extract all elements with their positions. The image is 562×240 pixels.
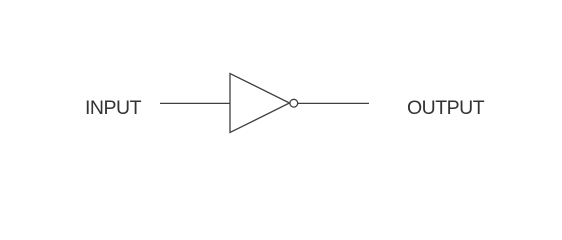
svg-text:OUTPUT: OUTPUT [407, 97, 485, 119]
node INPUT [85, 97, 142, 119]
inversion bubble [290, 99, 298, 107]
wire [298, 102, 369, 104]
node OUTPUT [407, 97, 485, 119]
wire [160, 102, 230, 104]
svg-text:INPUT: INPUT [85, 97, 142, 119]
inverter U1 [230, 74, 290, 133]
